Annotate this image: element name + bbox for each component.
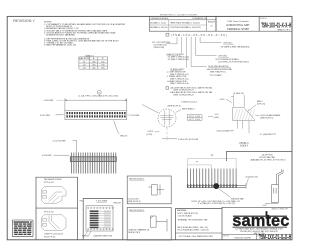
- svg-text:TERMINAL: PHOS BRONZE, SEE: TERMINAL: PHOS BRONZE, SEE: [178, 218, 209, 221]
- svg-text:SURFACE MOUNT TAB AREA: SURFACE MOUNT TAB AREA: [46, 34, 75, 37]
- svg-text:COLOR: BLACK: COLOR: BLACK: [178, 215, 193, 218]
- svg-text:TSM-XX: TSM-XX: [120, 135, 128, 137]
- svg-text:DECIMALS ± .005 [.13]: DECIMALS ± .005 [.13]: [150, 26, 168, 29]
- svg-text:MATERIAL:: MATERIAL:: [177, 209, 188, 212]
- svg-text:TERMINAL STRIP: TERMINAL STRIP: [227, 27, 249, 31]
- svg-text:DWG NO.: DWG NO.: [260, 18, 268, 20]
- svg-text:(SEE NOTE 4): (SEE NOTE 4): [168, 105, 181, 107]
- la lead profile dim: [265, 202, 278, 204]
- pin detail centerline: [166, 128, 168, 142]
- svg-text:0.15: 0.15: [215, 114, 219, 116]
- pin detail mini table: [187, 115, 202, 121]
- la lead profile: [272, 170, 283, 203]
- side view pin size leader: [73, 141, 77, 153]
- svg-text:G: G: [98, 92, 100, 94]
- re-process 2 drawing: [151, 216, 168, 231]
- svg-text:-LA OPTION: -LA OPTION: [261, 153, 273, 156]
- title block border: [222, 207, 292, 240]
- svg-text:[0.38±0.10]: [0.38±0.10]: [234, 93, 244, 95]
- svg-text:EMBOSS: EMBOSS: [82, 236, 89, 238]
- svg-text:PLUG PP-XX: PLUG PP-XX: [44, 236, 56, 238]
- svg-text:SEE DETAIL X: SEE DETAIL X: [182, 107, 196, 110]
- svg-text:(SEE NOTE X): (SEE NOTE X): [260, 118, 273, 120]
- packaging panel divider: [36, 207, 78, 209]
- svg-text:(CARRIER DIRECTION): (CARRIER DIRECTION): [94, 235, 113, 238]
- svg-text:"F": "F": [196, 162, 199, 164]
- tolerance box: [149, 16, 216, 31]
- svg-text:0.125 REF: 0.125 REF: [130, 115, 140, 117]
- svg-text:(L.D.A # PIN x .0XX) (TAB) 4.: (L.D.A # PIN x .0XX) (TAB) 4.99 (.XX) (.…: [79, 95, 119, 98]
- svg-text:0.0XX REF: 0.0XX REF: [40, 115, 51, 117]
- svg-text:UNLD ROHS ALLOWED: .004 [.10]: UNLD ROHS ALLOWED: .004 [.10]: [177, 226, 208, 229]
- la option compartment line: [226, 150, 292, 152]
- packaging panel border: [36, 177, 78, 240]
- svg-text:TOLERANCES OK: TOLERANCES OK: [192, 17, 207, 20]
- svg-text:DWG BY: DWG BY: [223, 235, 229, 237]
- svg-text:(AVAILABLE IN -XX THRU -XX POS: (AVAILABLE IN -XX THRU -XX POS ONLY): [251, 159, 286, 162]
- detail x bottom extension lines: [237, 121, 239, 129]
- svg-text:STYLE -XX: STYLE -XX: [44, 182, 54, 184]
- tr tape outline: [86, 206, 113, 231]
- svg-text:.100: .100: [101, 61, 105, 63]
- detail x pad shape: [233, 108, 255, 121]
- re-process 1 drawing: [149, 185, 165, 195]
- svg-text:SHEET 1 OF 1: SHEET 1 OF 1: [277, 29, 290, 31]
- big view pins: [188, 169, 237, 185]
- svg-text:Y-TSM-XX-X-XX-X: Y-TSM-XX-X-XX-X: [181, 101, 198, 103]
- svg-text:(0.000±0.015): (0.000±0.015): [246, 176, 258, 178]
- re-process 2 box: [127, 208, 171, 241]
- svg-text:0.015: 0.015: [220, 99, 226, 101]
- samtec logo top bar: [233, 215, 287, 217]
- svg-text:0.1X: 0.1X: [263, 205, 268, 207]
- big view pin feet: [187, 184, 237, 188]
- tr component pockets: [90, 210, 111, 228]
- svg-text:DECIMALS ± .01 [.3]: DECIMALS ± .01 [.3]: [150, 22, 166, 25]
- lead style spec label: [167, 53, 190, 61]
- no. of positions label: [152, 42, 170, 49]
- title box: [216, 16, 259, 31]
- plating spec label: [167, 68, 190, 85]
- approval stamp: [12, 220, 33, 237]
- svg-text:(SEE TSM) PK D): (SEE TSM) PK D): [210, 72, 226, 74]
- svg-text:SEE NOTE 8: SEE NOTE 8: [128, 232, 139, 234]
- side view pins: [72, 153, 116, 174]
- notes block: [44, 22, 126, 47]
- tr sprocket holes bottom: [88, 229, 114, 230]
- svg-text:"W": "W": [210, 155, 214, 157]
- pin detail pin body: [161, 111, 174, 126]
- svg-text:(X PLCS): (X PLCS): [257, 104, 266, 106]
- svg-text:LEAD STYLE: LEAD STYLE: [79, 57, 91, 60]
- top view body: [65, 110, 127, 119]
- part number callout lines: [166, 37, 222, 68]
- svg-text:(SEE NOTE 3): (SEE NOTE 3): [128, 201, 141, 203]
- leader to TSM label: [114, 121, 120, 135]
- top view pin row 2: [66, 115, 125, 117]
- material block plot scale row: [176, 232, 223, 234]
- svg-text:0.050 REF: 0.050 REF: [42, 155, 52, 157]
- svg-text:0.012 SQ REF: 0.012 SQ REF: [53, 140, 67, 142]
- svg-text:FOUR PLACE DECIMALS ± .0005 [.: FOUR PLACE DECIMALS ± .0005 [.013]: [170, 26, 201, 29]
- svg-text:(SEE T-TSM-XX-FN-X): (SEE T-TSM-XX-FN-X): [174, 94, 194, 96]
- svg-text:(TSM–1XX–XX–XX–XX–X–XX): (TSM–1XX–XX–XX–XX–X–XX): [171, 33, 228, 37]
- svg-text:± 2°: ± 2°: [210, 26, 213, 28]
- tr leader lines: [85, 231, 88, 235]
- svg-text:[.006]: [.006]: [214, 117, 219, 119]
- big view weld pad: [214, 183, 219, 188]
- svg-text:SCALE X: SCALE X: [240, 144, 249, 147]
- dwg number box: [259, 16, 292, 31]
- top view pin row 1: [66, 112, 125, 114]
- svg-text:.320: .320: [92, 64, 96, 66]
- svg-text:[X.XX]: [X.XX]: [147, 134, 153, 136]
- svg-text:-XX: -XX: [189, 119, 193, 121]
- svg-text:(SEE T-TSM-XX-G-X): (SEE T-TSM-XX-G-X): [170, 83, 189, 85]
- samtec logo underline: [233, 226, 288, 228]
- samtec logo t stem: [266, 211, 268, 216]
- svg-text:PB-D: PB-D: [80, 200, 85, 202]
- svg-text:.290: .290: [101, 67, 105, 69]
- plating spec gold note: [170, 86, 213, 96]
- tr panel border: [83, 199, 123, 241]
- svg-text:TSM, Times & Samtec: TSM, Times & Samtec: [227, 20, 250, 23]
- svg-text:0.XXX: 0.XXX: [148, 131, 154, 133]
- svg-text:FEED DIR.: FEED DIR.: [114, 203, 122, 205]
- svg-text:(-XX THRU -XX POSITIONS ONLY): (-XX THRU -XX POSITIONS ONLY): [218, 61, 249, 63]
- big view weld leader: [218, 188, 231, 197]
- svg-text:REVISION √: REVISION √: [13, 19, 35, 23]
- sheet border frame: [7, 16, 292, 239]
- svg-text:.420: .420: [92, 67, 96, 69]
- top view dimension line: [64, 98, 66, 110]
- svg-text:.190: .190: [101, 64, 105, 66]
- svg-text:PACKAGING VIEW: PACKAGING VIEW: [44, 178, 62, 181]
- svg-text:ANGLES: ANGLES: [208, 21, 216, 24]
- svg-text:0.1 [.004] MIN TYP: 0.1 [.004] MIN TYP: [260, 134, 277, 136]
- svg-text:0.05 [.002] MIN TYP: 0.05 [.002] MIN TYP: [216, 131, 234, 133]
- svg-text:SHEET 1 OF 1: SHEET 1 OF 1: [281, 239, 291, 241]
- top view datum circle: [97, 90, 101, 94]
- svg-text:S-R1045 10/5/98: S-R1045 10/5/98: [234, 238, 251, 240]
- svg-text:-03: -03: [83, 67, 86, 69]
- pin detail bottom dim: [162, 138, 177, 140]
- svg-text:8. MAX PIN VARIANCE .0XX [.13]: 8. MAX PIN VARIANCE .0XX [.13]: [44, 44, 76, 47]
- title block bottom row: [222, 233, 292, 235]
- svg-text:TUBE PT-1-XX-XX-XX: TUBE PT-1-XX-XX-XX: [44, 234, 64, 236]
- svg-text:0.XXX: 0.XXX: [195, 119, 201, 121]
- svg-text:'F' = (TAB) (NO. POSITIONS–1): 'F' = (TAB) (NO. POSITIONS–1) x .0XX [.X…: [198, 202, 236, 205]
- material block border: [176, 209, 223, 241]
- svg-text:0.XXX±.015 [X.XX±.38]: 0.XXX±.015 [X.XX±.38]: [178, 139, 199, 141]
- re-process 1 box: [127, 176, 171, 204]
- table 1 grid: [79, 57, 108, 69]
- material block text: [177, 209, 209, 231]
- tr sprocket holes top: [88, 207, 114, 208]
- svg-text:STYLE -XX: STYLE -XX: [44, 212, 54, 214]
- svg-text:GOLD FLASH ALLOWED: .002 [.05]: GOLD FLASH ALLOWED: .002 [.05]: [177, 228, 209, 231]
- svg-text:-02: -02: [83, 64, 86, 66]
- svg-text:DIMS ARE IN INCHES: DIMS ARE IN INCHES: [151, 17, 169, 20]
- svg-text:-TR (TAPE & REEL PACKAGING): -TR (TAPE & REEL PACKAGING): [220, 45, 250, 48]
- svg-text:.230: .230: [92, 61, 96, 63]
- svg-text:-02 (SEE T-TSM-02-X-X): -02 (SEE T-TSM-02-X-X): [168, 59, 190, 61]
- packaging style 1 icon: [42, 187, 67, 204]
- svg-text:LEAD-IN CHAMFER (4): LEAD-IN CHAMFER (4): [128, 228, 149, 231]
- svg-text:PLOT SCALE: 2X=1 SHEETSIZE: PE: PLOT SCALE: 2X=1 SHEETSIZE: PER: [179, 235, 214, 238]
- svg-text:0.025 REF: 0.025 REF: [44, 100, 54, 102]
- svg-text:THREE PLACE DECIMALS ± .005 [.: THREE PLACE DECIMALS ± .005 [.13]: [170, 22, 200, 25]
- svg-text:-01: -01: [83, 61, 86, 63]
- part number checkbox: [166, 33, 169, 36]
- packaging style 2 icon: [42, 215, 67, 231]
- svg-text:PHONE (812) 944-6733 FAX (81: PHONE (812) 944-6733 FAX (812) 948-5047: [240, 230, 278, 233]
- svg-text:* NOT TRAYS: * NOT TRAYS: [209, 74, 222, 77]
- svg-text:HORIZONTAL SMT: HORIZONTAL SMT: [226, 23, 250, 27]
- pin detail dashed circle: [158, 109, 176, 127]
- pin detail leader from top view: [142, 105, 159, 114]
- big view smt leads: [187, 184, 246, 186]
- svg-text:(PER ROW): (PER ROW): [154, 47, 165, 49]
- side view insulator body: [70, 157, 116, 162]
- detail x top extension lines: [232, 95, 234, 107]
